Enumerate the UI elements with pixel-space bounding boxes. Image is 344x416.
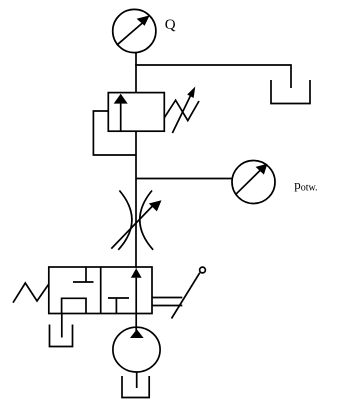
directional valve V1 body (two positions)	[49, 267, 152, 314]
wire: V1 to tank T2	[61, 314, 63, 338]
svg-text:Q: Q	[165, 17, 176, 33]
V1 right box: through flow path with arrow	[131, 267, 142, 314]
wire: pump suction to tank T3	[136, 372, 138, 388]
V1 right box: blocked bottom port	[108, 298, 129, 314]
wire: branch to pressure gauge	[136, 178, 232, 180]
pressure gauge p_otw	[232, 161, 275, 204]
V1 lever actuator	[152, 267, 205, 318]
pressure compensator valve body	[108, 93, 164, 132]
tank T3 (below pump)	[122, 376, 149, 398]
compensator flow-path arrow	[114, 94, 128, 131]
tank T2 (below valve, left)	[50, 325, 73, 347]
wire: branch to top-right tank	[135, 65, 291, 88]
V1 return spring	[13, 283, 49, 303]
throttle adjustment arrow	[111, 200, 161, 248]
flow meter Q (gauge circle)	[113, 9, 156, 52]
compensator pilot line	[93, 111, 136, 155]
wire: compensator to directional valve (main line)	[135, 131, 137, 267]
variable throttle valve	[118, 191, 153, 250]
V1 left box: bottom ports link	[62, 298, 86, 313]
wire: V1 to pump	[135, 314, 137, 332]
wire: flow meter to compensator valve	[135, 52, 137, 93]
compensator adjustable spring	[164, 100, 199, 120]
compensator spring adjustment arrow	[172, 87, 195, 134]
svg-text:potw.: potw.	[294, 177, 317, 194]
tank T1 (top right)	[271, 80, 310, 104]
V1 left box: blocked top port	[73, 267, 94, 282]
pump P1	[113, 327, 160, 372]
